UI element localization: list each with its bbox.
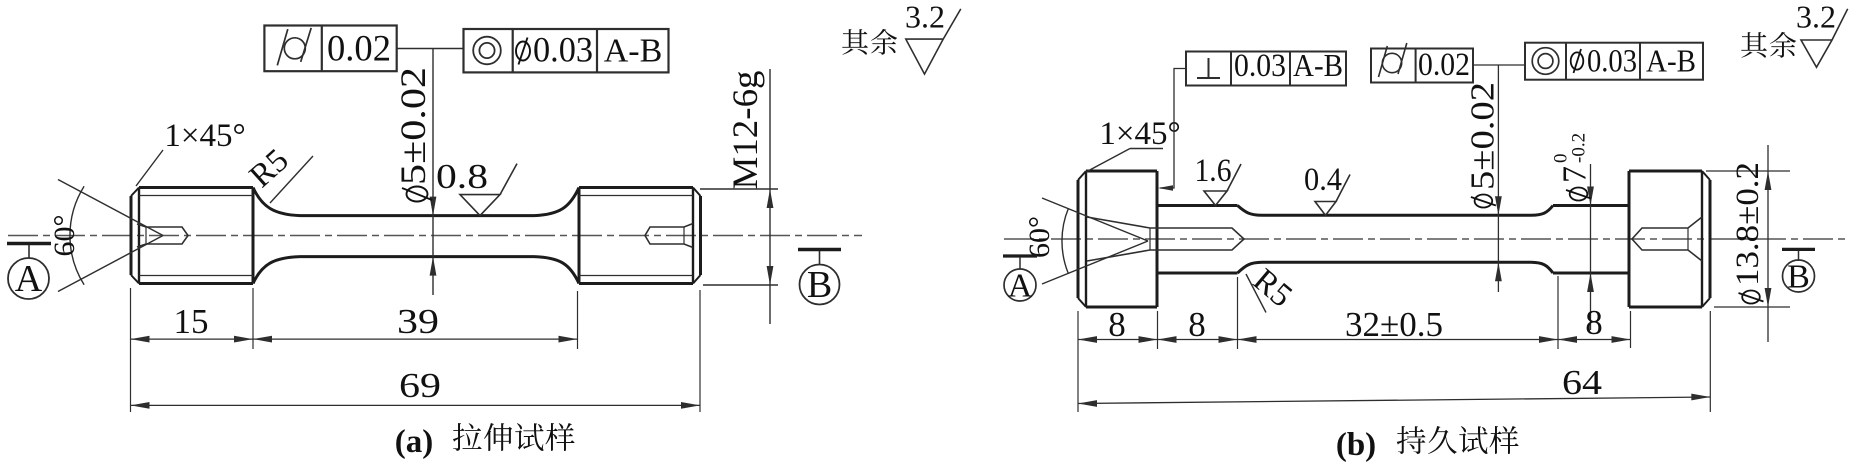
svg-text:0.03: 0.03 (1587, 44, 1637, 80)
svg-text:B: B (1787, 259, 1810, 296)
right head outline (b) (1628, 171, 1631, 307)
svg-text:A: A (1008, 268, 1033, 305)
M12-6g dimension line (a) (769, 69, 771, 324)
feature control frame perpendicularity 0.03 A-B (b) (1186, 52, 1346, 86)
datum B symbol (a) (798, 248, 841, 251)
center hole right head (b) (1632, 217, 1702, 261)
svg-text:1.6: 1.6 (1195, 153, 1232, 189)
dimension 69 (a) (131, 404, 701, 406)
datum A symbol (a) (7, 242, 51, 245)
centerline axis (b) (1004, 238, 1845, 240)
left head outline (b) (1077, 180, 1080, 298)
label phi5+-0.02 (a) (393, 67, 433, 202)
60 deg cone lines (b) (1042, 198, 1148, 241)
svg-text:64: 64 (1562, 363, 1602, 402)
fillet R5 left (a) (253, 188, 300, 216)
60 deg arc (b) (1062, 208, 1069, 274)
60 deg arc (a) (70, 186, 84, 285)
leader FCF to phi5 line (b) (1473, 64, 1525, 66)
svg-text:0.4: 0.4 (1304, 162, 1342, 198)
svg-text:60°: 60° (48, 215, 81, 257)
datum B symbol (b) (1782, 248, 1815, 251)
thread root lines right head (a) (579, 195, 693, 197)
svg-text:60°: 60° (1023, 216, 1056, 258)
remainder roughness 3.2 (a) (842, 29, 868, 55)
feature control frame cylindricity 0.02 (a) (264, 26, 396, 72)
svg-text:13.8±0.2: 13.8±0.2 (1730, 162, 1766, 286)
label phi7 with tolerance (b) (1551, 133, 1594, 201)
leader FCF to phi5 line (a) (397, 48, 464, 50)
fillet R5 right (a) (534, 188, 579, 216)
svg-text:(b): (b) (1336, 427, 1376, 462)
feature control frame concentricity phi0.03 A-B (a) (464, 29, 669, 72)
phi7 section right (b) (1553, 204, 1629, 207)
center hole right head (a) (645, 224, 693, 248)
dimension 64 (b) (1078, 397, 1710, 404)
gauge section lines (b) (1262, 214, 1531, 217)
svg-text:32±0.5: 32±0.5 (1345, 305, 1443, 344)
svg-text:B: B (807, 264, 832, 306)
svg-text:A-B: A-B (604, 33, 663, 70)
svg-text:7: 7 (1557, 166, 1594, 183)
center hole left head (b) (1087, 217, 1244, 261)
svg-text:0.03: 0.03 (1234, 48, 1286, 84)
dimension 8 phi7 right (b) (1558, 339, 1631, 341)
fillet R5 left (b) (1238, 206, 1263, 216)
phi13.8 extension lines (b) (1706, 170, 1790, 172)
feature control frame concentricity phi0.03 A-B (b) (1525, 43, 1703, 80)
surface finish 0.8 (a) (460, 164, 517, 216)
svg-text:15: 15 (174, 302, 209, 341)
label phi13.8+-0.2 (b) (1730, 162, 1766, 304)
svg-text:69: 69 (399, 366, 441, 405)
svg-text:39: 39 (397, 302, 439, 341)
svg-text:0.02: 0.02 (327, 29, 391, 70)
svg-text:0.03: 0.03 (533, 30, 593, 70)
M12-6g extension lines (a) (700, 188, 778, 190)
surface finish 0.4 (b) (1315, 175, 1350, 216)
svg-text:8: 8 (1585, 303, 1603, 342)
dimension 39 (a) (253, 338, 578, 340)
svg-text:1×45°: 1×45° (1099, 116, 1180, 152)
extension lines bottom (b) (1077, 311, 1079, 412)
phi5 dimension line (a) (432, 49, 434, 296)
svg-text:-0.2: -0.2 (1569, 133, 1590, 163)
fillet R5 right (b) (1531, 206, 1553, 216)
svg-text:(a): (a) (395, 424, 433, 460)
leader perpendicularity (b) (1160, 69, 1186, 189)
dimension 15 (a) (131, 338, 254, 340)
dimension 8 phi7 left (b) (1158, 339, 1238, 341)
feature control frame cylindricity 0.02 (b) (1371, 49, 1473, 83)
svg-text:3.2: 3.2 (1796, 0, 1836, 35)
thread root lines left head (a) (139, 195, 253, 197)
remainder roughness 3.2 (b) (1741, 32, 1767, 58)
centerline axis (a) (8, 235, 862, 237)
extension lines bottom (a) (130, 288, 132, 412)
svg-text:0.8: 0.8 (436, 157, 488, 196)
dimension 8 head (b) (1078, 339, 1158, 341)
svg-text:8: 8 (1188, 305, 1206, 344)
phi5 dimension line (b) (1497, 65, 1499, 292)
svg-text:1×45°: 1×45° (164, 118, 245, 154)
svg-text:A-B: A-B (1293, 47, 1343, 83)
svg-text:5±0.02: 5±0.02 (393, 67, 433, 185)
svg-text:A: A (15, 258, 43, 300)
dimension 32+-0.5 (b) (1238, 339, 1559, 341)
label phi5+-0.02 (b) (1464, 82, 1501, 207)
datum A symbol (b) (1003, 254, 1037, 257)
phi7 section left (b) (1157, 204, 1238, 207)
svg-text:M12-6g: M12-6g (725, 71, 765, 190)
60 deg cone lines (a) (58, 180, 163, 236)
center hole left head (a) (137, 224, 188, 247)
phi13.8 dimension line (b) (1767, 145, 1769, 342)
svg-text:5±0.02: 5±0.02 (1464, 82, 1501, 190)
phi7 dimension line (b) (1590, 164, 1592, 330)
right grip head outline (a) (578, 188, 581, 284)
svg-text:0.02: 0.02 (1418, 47, 1470, 83)
svg-text:A-B: A-B (1646, 43, 1696, 79)
svg-text:8: 8 (1108, 305, 1126, 344)
svg-text:3.2: 3.2 (905, 0, 945, 35)
gauge section lines (a) (300, 214, 534, 217)
left grip head outline (a) (130, 196, 133, 275)
surface finish 1.6 (b) (1204, 164, 1241, 206)
